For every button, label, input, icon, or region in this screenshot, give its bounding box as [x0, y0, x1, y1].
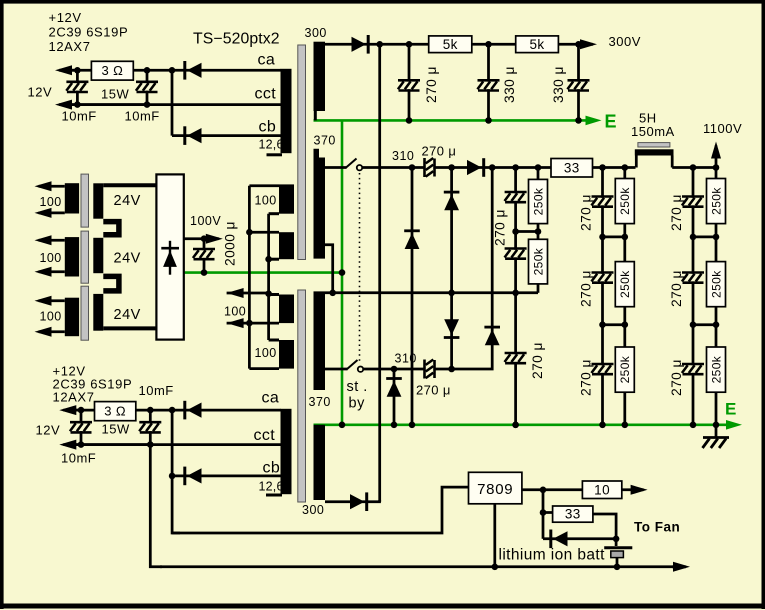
wire group2 cap column: [601, 168, 604, 425]
svg-text:ca: ca: [258, 52, 276, 69]
wire cb bottom: [172, 475, 281, 478]
svg-text:270 μ: 270 μ: [424, 66, 439, 103]
rectifier box (24V to 100V): [156, 174, 183, 339]
winding 300 upper: [314, 42, 326, 111]
svg-text:300: 300: [302, 503, 324, 517]
capacitor 270u group2 top: [592, 198, 614, 206]
wire cap column 270u top rail: [408, 44, 411, 120]
capacitor 270u (top rail): [398, 82, 420, 90]
wire 12,6 tap stub bottom: [266, 494, 282, 497]
diode doubler (right-pointing, upper): [482, 158, 485, 177]
svg-text:100: 100: [40, 251, 62, 265]
svg-text:33: 33: [564, 160, 580, 175]
wire primary bar3 top stub: [269, 293, 279, 296]
svg-text:st .: st .: [347, 379, 368, 395]
battery lithium top plate: [604, 546, 632, 549]
wire primary bar1 bottom stub: [269, 212, 279, 215]
svg-text:10mF: 10mF: [139, 383, 174, 398]
svg-text:12,6: 12,6: [259, 138, 284, 152]
wire 310 lower line after cap: [435, 368, 492, 371]
junction dots group2: [599, 164, 606, 171]
capacitor 330u (second): [568, 82, 590, 90]
svg-text:2000 μ: 2000 μ: [223, 221, 238, 266]
wire cb top: [172, 134, 281, 137]
svg-text:by: by: [349, 396, 366, 412]
diode doubler column C (up): [484, 326, 500, 329]
winding 100 main primary bar1: [279, 184, 294, 213]
wire primary inner vertical: [267, 214, 270, 340]
arrow fan supply out: [622, 488, 644, 491]
svg-text:cct: cct: [254, 427, 276, 444]
capacitor 10mF (top left): [66, 83, 88, 91]
wire group1 cross link: [516, 230, 538, 233]
resistor 10 (fan): [582, 481, 621, 499]
resistor 33 (fan): [553, 506, 593, 522]
svg-text:100: 100: [224, 305, 246, 319]
wire ca top (12V heater line): [68, 69, 281, 72]
net E lower green rail: [314, 423, 734, 426]
arrow 12V out (cct top): [59, 103, 147, 106]
resistor 5k (first): [429, 36, 472, 53]
svg-text:24V: 24V: [114, 307, 141, 323]
arrow AC input top winding 1: [39, 185, 65, 188]
wire group3 cap column: [692, 168, 695, 425]
svg-text:270 μ: 270 μ: [579, 194, 594, 231]
svg-text:15W: 15W: [102, 422, 130, 437]
svg-text:250k: 250k: [531, 247, 545, 275]
capacitor 270u series (upper 310): [426, 158, 433, 177]
series link secondary 2-3: [103, 276, 119, 291]
svg-text:330 μ: 330 μ: [502, 66, 517, 103]
wire 33 branch vertical: [542, 490, 545, 539]
wire doubler column B: [450, 168, 453, 369]
capacitor 270u group3 bottom: [682, 365, 704, 373]
wire 300 bottom tap to green rail: [314, 110, 317, 120]
border frame: [0, 0, 4, 609]
resistor 250k group2 R3: [615, 347, 634, 392]
svg-text:24V: 24V: [114, 251, 141, 267]
core 24V transformer 3: [81, 286, 89, 340]
junction dots group3: [690, 164, 697, 171]
svg-text:100: 100: [40, 195, 62, 209]
wire choke left lead: [635, 156, 638, 168]
svg-text:100: 100: [255, 346, 277, 360]
inductor 5H choke core: [638, 143, 670, 147]
svg-text:270 μ: 270 μ: [530, 342, 545, 379]
green horizontal 100V return wire: [184, 271, 342, 274]
winding 100 primary 1 (24V transformer): [65, 183, 79, 213]
diode fan (left): [549, 530, 552, 549]
svg-text:310: 310: [395, 352, 417, 366]
wire vertical ca-to-cb top: [171, 70, 174, 135]
arrow AC main input 2: [227, 322, 279, 325]
wire group2 cross link 2: [603, 323, 625, 326]
winding 24V secondary 3: [93, 294, 103, 331]
wire 24V bottom tap to rectifier: [103, 326, 156, 330]
arrow ground rail out: [672, 565, 686, 568]
wire primary bottom horizontal: [249, 367, 279, 370]
wire doubler column C: [490, 168, 493, 370]
wire 12,6 tap stub top: [267, 153, 283, 156]
svg-text:300: 300: [305, 26, 327, 40]
junction dots upper green rail: [406, 117, 413, 124]
junction dots 300V rail: [376, 41, 383, 48]
svg-text:270 μ: 270 μ: [579, 270, 594, 307]
wire 100V output: [184, 237, 212, 240]
wire vertical cap1 top: [76, 70, 79, 104]
resistor 250k group2 R1: [615, 179, 634, 224]
svg-text:12V: 12V: [28, 85, 53, 100]
svg-text:E: E: [725, 400, 737, 419]
wire long vertical DC bus from 300V diode: [378, 44, 381, 501]
svg-text:7809: 7809: [477, 481, 513, 498]
diode rectifier 300V (top): [367, 35, 370, 54]
junction dots 310 network: [409, 164, 416, 171]
diode inside rectifier: [169, 241, 171, 275]
core 24V transformer 1: [81, 174, 89, 227]
svg-text:150mA: 150mA: [631, 124, 675, 139]
diode ca (top): [183, 61, 186, 80]
svg-text:3 Ω: 3 Ω: [101, 63, 123, 78]
resistor 5k (second): [516, 36, 559, 53]
svg-text:330 μ: 330 μ: [551, 66, 566, 103]
wire group3 cross link 2: [693, 323, 716, 326]
svg-text:cb: cb: [259, 119, 277, 136]
net E upper green rail: [314, 119, 593, 122]
capacitor 270u group1 bottom: [505, 354, 527, 362]
wire 7809 output: [522, 488, 585, 491]
svg-text:ca: ca: [262, 390, 280, 407]
svg-text:100V: 100V: [190, 214, 221, 228]
wire group3 cross link 1: [693, 236, 716, 239]
capacitor 10mF (top right): [136, 83, 158, 91]
wire group2 cross link 1: [603, 236, 625, 239]
svg-text:10mF: 10mF: [125, 109, 160, 124]
regulator 7809: [469, 472, 522, 504]
wire doubler column A: [411, 168, 414, 425]
wire group2 res column: [623, 168, 626, 425]
svg-text:370: 370: [314, 134, 336, 148]
capacitor 270u group1 mid: [505, 250, 527, 258]
switch st.by upper pole: [346, 159, 357, 169]
svg-text:310: 310: [392, 149, 414, 163]
wire vertical cap2 bottom continues to ground rail: [150, 410, 162, 567]
svg-text:+12V: +12V: [49, 10, 82, 25]
wire 300V rail: [352, 43, 585, 46]
svg-text:100: 100: [40, 310, 62, 324]
diode rectifier 300V (bottom): [365, 492, 368, 511]
svg-text:100: 100: [255, 194, 277, 208]
diode ca (bottom): [183, 401, 186, 420]
green arrow to E (lower): [726, 420, 742, 430]
capacitor 2000u: [203, 239, 206, 273]
junction dots 7809 section: [540, 487, 547, 494]
arrow AC main input 1: [227, 292, 269, 295]
arrow 1100V out: [715, 146, 718, 168]
svg-text:250k: 250k: [709, 355, 723, 383]
wire primary left vertical: [248, 186, 251, 369]
wire primary bar2 top tap: [249, 231, 279, 234]
arrow AC input bottom winding 2: [39, 270, 65, 273]
wire 7809 input line: [172, 487, 468, 533]
winding ca-cct-cb bottom (transformer T2 heater secondary): [281, 409, 292, 494]
wire group1 cap column: [514, 168, 517, 425]
svg-text:5k: 5k: [443, 37, 458, 52]
resistor 250k group3 R2: [707, 262, 726, 307]
capacitor 330u (first): [478, 82, 500, 90]
svg-text:12AX7: 12AX7: [49, 39, 91, 54]
svg-text:12V: 12V: [36, 423, 61, 438]
resistor 33 (310 line): [551, 159, 593, 178]
wire lower transformer tap down-wire: [331, 291, 334, 294]
svg-text:33: 33: [565, 507, 581, 522]
svg-text:270 μ: 270 μ: [579, 359, 594, 396]
wire vertical ca-to-cb bottom continues to 7809 line: [172, 410, 180, 533]
svg-text:300V: 300V: [609, 34, 641, 49]
svg-text:cct: cct: [255, 86, 277, 103]
arrow 12V out (ca bottom): [63, 409, 81, 412]
winding 100 primary 3 (24V transformer): [65, 298, 79, 337]
wire cap column 330u second: [577, 44, 580, 120]
resistor 250k group3 R1: [707, 179, 726, 224]
wire group1 res column upper: [537, 168, 540, 180]
resistor 3 ohm 15W (bottom): [95, 402, 136, 421]
svg-text:250k: 250k: [709, 270, 723, 298]
arrow 12V out (ca top): [59, 69, 77, 72]
wire primary bar4 top stub: [269, 339, 279, 342]
capacitor 270u group3 top: [682, 198, 704, 206]
wire choke right lead: [671, 156, 674, 168]
wire 7809 ground lead: [493, 504, 496, 567]
winding 100 main primary bar2: [279, 232, 294, 259]
wire group3 res column: [715, 168, 718, 425]
svg-text:270 μ: 270 μ: [493, 209, 508, 246]
switch link dotted line: [359, 173, 361, 363]
winding 370 upper: [314, 149, 326, 259]
svg-text:270 μ: 270 μ: [669, 194, 684, 231]
core 24V transformer 2: [81, 231, 89, 283]
wire battery to ground rail: [616, 558, 619, 567]
diode shunt lower 310 (up): [386, 377, 402, 380]
diode cb (bottom): [183, 467, 186, 486]
arrow AC input bottom winding 1: [39, 212, 65, 215]
wire 370 upper top tap to switch: [325, 166, 347, 169]
resistor 250k group3 R3: [707, 347, 726, 392]
svg-text:250k: 250k: [709, 187, 723, 215]
diode cb (top): [183, 126, 186, 145]
ground symbol lower right: [715, 425, 718, 437]
diode doubler column B upper (up): [444, 191, 460, 194]
junction dots lower green rail: [339, 422, 346, 429]
svg-text:270 μ: 270 μ: [416, 383, 451, 398]
wire center tap corner to 250k chain: [537, 284, 540, 293]
svg-text:270 μ: 270 μ: [669, 359, 684, 396]
wire vertical cap1 bottom: [80, 410, 83, 445]
wire ca bottom: [72, 409, 281, 412]
svg-text:3 Ω: 3 Ω: [104, 404, 126, 419]
battery lithium bottom cell: [611, 551, 624, 558]
resistor 3 ohm 15W (top): [91, 61, 133, 80]
wire fan diode line: [543, 537, 616, 540]
wire diode shunt column: [393, 369, 396, 425]
wire center tap horizontal (370 junction): [314, 291, 539, 294]
svg-text:E: E: [605, 112, 618, 132]
core upper (transformer T1 core): [298, 45, 306, 260]
wire group1 res link: [537, 224, 540, 240]
junction dots main primary: [246, 229, 253, 236]
svg-text:5k: 5k: [530, 37, 545, 52]
capacitor 270u group2 mid: [592, 274, 614, 282]
svg-text:TS−520ptx2: TS−520ptx2: [193, 31, 280, 48]
winding 24V secondary 1: [93, 183, 103, 218]
wire primary bar2 bottom stub: [269, 258, 279, 261]
switch st.by lower pole: [347, 360, 358, 370]
svg-text:12AX7: 12AX7: [53, 390, 95, 405]
junction dots heater bottom: [78, 407, 85, 414]
wire 370 upper bottom tap: [323, 245, 333, 293]
wire cct top: [68, 103, 281, 106]
winding 100 primary 2 (24V transformer): [65, 237, 79, 276]
wire vertical cap2 top: [146, 70, 149, 104]
series link secondary 1-2: [103, 222, 119, 235]
wire primary top horizontal: [249, 184, 279, 187]
wire 24V top tap to rectifier: [103, 183, 156, 187]
wire corner up to DC bus: [378, 500, 381, 502]
capacitor 270u group2 bottom: [592, 365, 614, 373]
svg-text:10mF: 10mF: [61, 451, 96, 466]
resistor 250k group2 R2: [615, 262, 634, 307]
arrow 300V out: [579, 43, 594, 46]
winding 300 lower: [314, 425, 326, 500]
junction dots 100V: [201, 235, 208, 242]
svg-text:12,6: 12,6: [259, 480, 284, 494]
wire 370 lower bottom tap to switch: [325, 368, 348, 371]
junction dots heater top: [74, 67, 81, 74]
resistor 250k group1 R2: [529, 239, 548, 284]
svg-text:370: 370: [309, 395, 331, 409]
inductor 5H choke winding: [635, 149, 674, 155]
svg-text:To Fan: To Fan: [634, 520, 680, 535]
svg-text:270 μ: 270 μ: [669, 270, 684, 307]
capacitor 270u group3 mid: [682, 274, 704, 282]
winding 100 main primary bar4: [279, 340, 294, 369]
resistor 250k group1 R1: [529, 179, 548, 223]
arrow AC input bottom winding 3: [39, 330, 65, 333]
junction dots group1: [512, 164, 519, 171]
arrow AC input top winding 2: [39, 239, 65, 242]
wire cct bottom: [72, 443, 281, 446]
arrow AC input top winding 3: [39, 299, 65, 302]
svg-text:10mF: 10mF: [62, 109, 97, 124]
arrow 100V out: [206, 237, 219, 240]
wire cap column 330u first: [487, 44, 490, 120]
capacitor 10mF (bottom right): [139, 424, 161, 432]
wire 310 upper line: [362, 166, 425, 169]
green arrow to E (upper): [586, 116, 602, 126]
core lower (transformer T2 core): [298, 290, 306, 502]
wire bottom ground rail: [160, 565, 674, 568]
wire choke output: [672, 166, 716, 169]
arrow 12V out (cct bottom): [63, 443, 150, 446]
svg-text:250k: 250k: [618, 270, 632, 298]
wire 300 lower bottom tap: [325, 500, 381, 503]
capacitor 270u group1 top: [505, 193, 527, 201]
capacitor 10mF (bottom left): [70, 424, 92, 432]
svg-text:15W: 15W: [101, 87, 129, 102]
svg-text:2C39 6S19P: 2C39 6S19P: [49, 25, 129, 40]
svg-text:250k: 250k: [618, 187, 632, 215]
winding 100 main primary bar3: [279, 295, 294, 324]
diode doubler column B lower (down): [444, 336, 460, 339]
wire 300 top tap: [325, 43, 352, 46]
winding ca-cct-cb top (transformer T1 heater secondary): [281, 69, 292, 153]
svg-text:250k: 250k: [531, 187, 545, 215]
winding 24V secondary 2: [93, 238, 103, 273]
svg-text:270 μ: 270 μ: [422, 144, 457, 159]
net E vertical green link: [341, 120, 344, 424]
wire 33 output corner down: [593, 514, 616, 546]
svg-text:1100V: 1100V: [703, 121, 742, 136]
capacitor 270u series (lower 310): [426, 360, 433, 379]
svg-text:24V: 24V: [114, 193, 141, 209]
wire 310 lower line: [364, 368, 425, 371]
svg-text:lithium ion batt: lithium ion batt: [499, 547, 606, 564]
wire 33 branch to box: [543, 511, 553, 514]
svg-text:250k: 250k: [618, 355, 632, 383]
winding 370 lower: [314, 293, 326, 390]
svg-text:cb: cb: [263, 460, 281, 477]
svg-text:10: 10: [594, 482, 610, 497]
diode doubler column A (up): [404, 229, 420, 232]
wire 310 upper line after cap: [435, 166, 636, 169]
